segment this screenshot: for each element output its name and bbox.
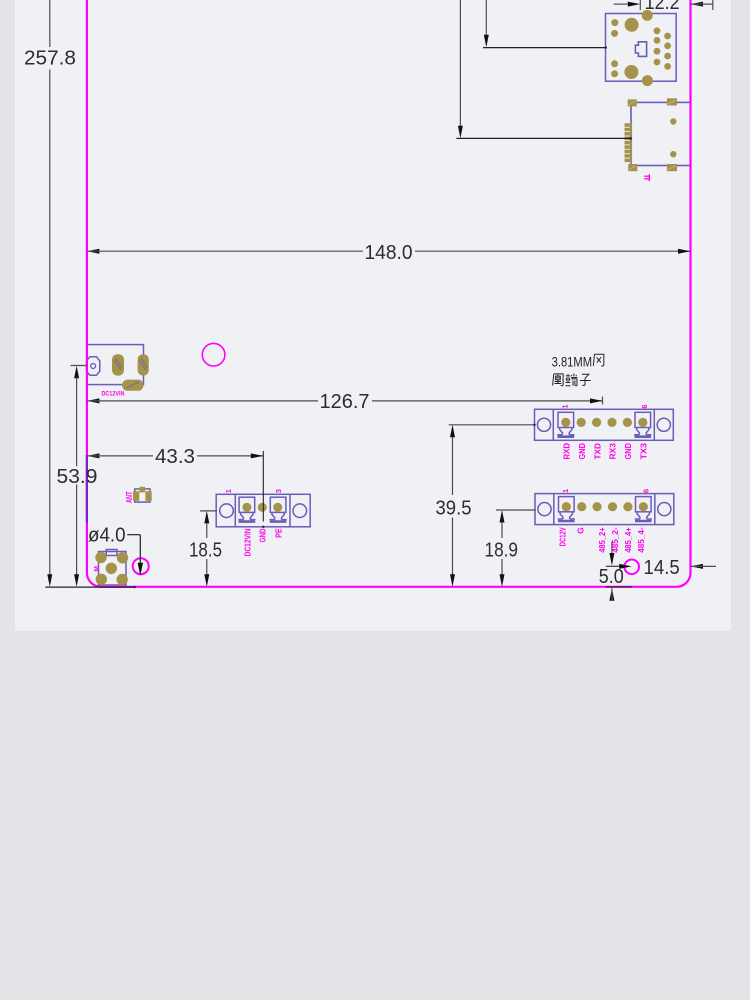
- svg-text:G: G: [575, 527, 585, 534]
- svg-text:TX3: TX3: [639, 443, 649, 460]
- svg-text:148.0: 148.0: [365, 242, 413, 264]
- svg-text:TXD: TXD: [592, 443, 602, 460]
- svg-text:3: 3: [274, 489, 283, 493]
- svg-text:ANT: ANT: [125, 491, 134, 503]
- svg-text:GND: GND: [623, 443, 633, 460]
- svg-text:485_4+: 485_4+: [623, 527, 633, 553]
- svg-text:485_2+: 485_2+: [597, 527, 607, 553]
- svg-text:18.9: 18.9: [485, 540, 519, 562]
- svg-text:53.9: 53.9: [57, 466, 98, 488]
- svg-text:1: 1: [224, 489, 233, 493]
- svg-text:6: 6: [642, 489, 651, 493]
- svg-text:14.5: 14.5: [644, 557, 680, 579]
- svg-text:DC12V: DC12V: [558, 527, 568, 546]
- svg-text:PE: PE: [274, 528, 284, 538]
- svg-text:DC12VIN: DC12VIN: [242, 528, 252, 556]
- svg-text:ø4.0: ø4.0: [88, 525, 126, 547]
- svg-text:1: 1: [561, 404, 570, 408]
- svg-text:GND: GND: [577, 443, 587, 460]
- svg-text:18.5: 18.5: [189, 540, 222, 562]
- svg-text:39.5: 39.5: [436, 498, 472, 520]
- svg-text:6: 6: [640, 404, 649, 408]
- svg-text:M: M: [94, 566, 101, 571]
- svg-text:12.2: 12.2: [645, 0, 680, 14]
- svg-text:RX3: RX3: [608, 443, 618, 460]
- svg-text:1: 1: [561, 489, 570, 493]
- svg-text:43.3: 43.3: [155, 446, 195, 468]
- svg-text:DC12VIN: DC12VIN: [102, 391, 125, 398]
- svg-text:485_4-: 485_4-: [636, 527, 646, 553]
- svg-text:5.0: 5.0: [599, 566, 624, 588]
- svg-text:257.8: 257.8: [24, 48, 76, 70]
- svg-text:RXD: RXD: [562, 443, 572, 460]
- svg-text:3.81MM: 3.81MM: [552, 354, 593, 369]
- svg-text:126.7: 126.7: [320, 391, 370, 413]
- svg-text:GND: GND: [258, 528, 268, 542]
